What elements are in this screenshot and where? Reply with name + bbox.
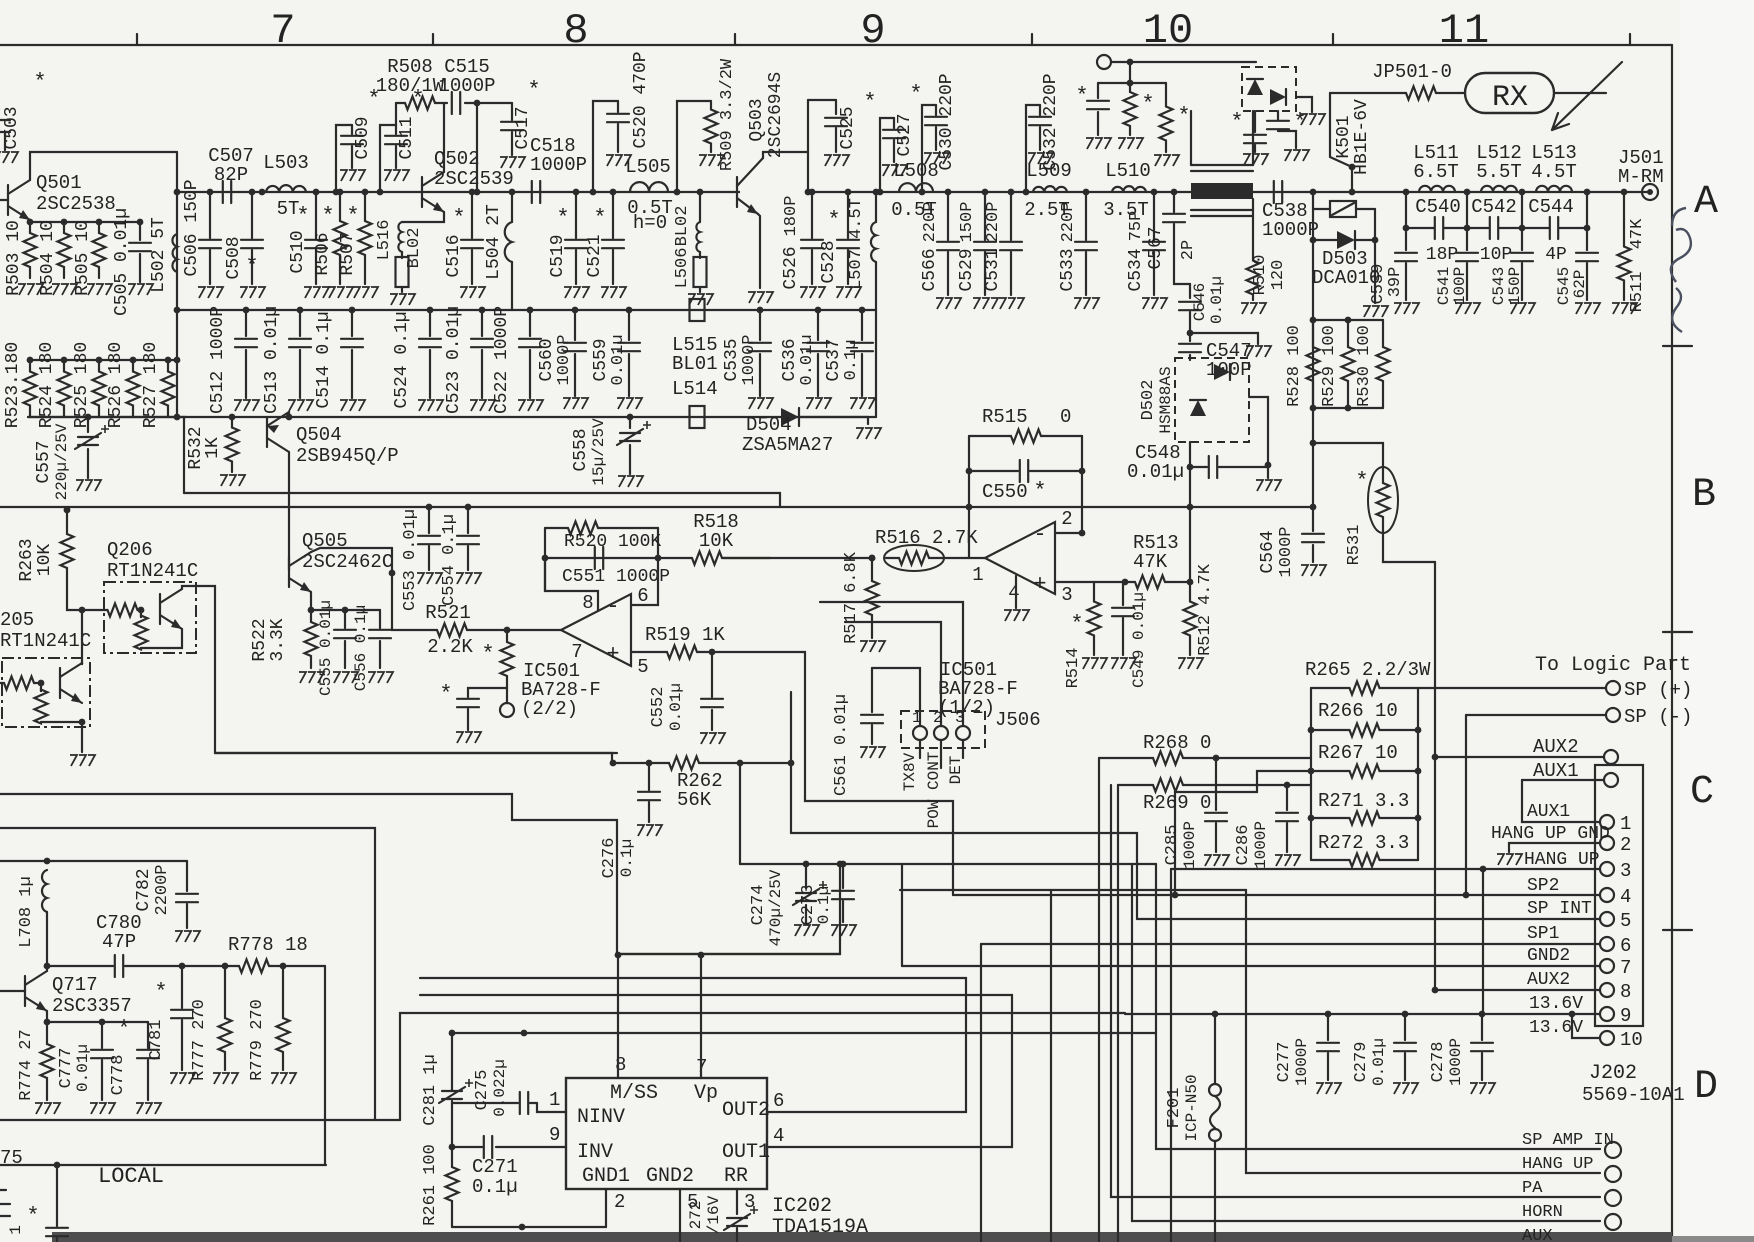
svg-text:0: 0 (1060, 406, 1071, 428)
svg-text:1K: 1K (203, 437, 223, 459)
wire opamp1 pin2 (1056, 532, 1082, 534)
svg-text:C526: C526 (781, 246, 801, 289)
capacitor C543 150P (1521, 228, 1523, 250)
svg-text:R267 10: R267 10 (1318, 742, 1398, 764)
wire IC202 pin8 (617, 955, 619, 1078)
wire pin8 line (1435, 989, 1600, 991)
wire R531 branch (1310, 440, 1317, 447)
wire SP INT feed (791, 833, 1137, 919)
svg-text:Q206: Q206 (107, 539, 153, 561)
capacitor C531 220P (1008, 189, 1015, 196)
capacitor C278 1000P (1479, 1011, 1486, 1018)
svg-text:2: 2 (1620, 834, 1631, 856)
transistor Q503 (740, 188, 805, 196)
wire Q717 emitter (46, 1011, 48, 1022)
capacitor C564 1000P (1310, 504, 1317, 511)
svg-text:C505 0.01µ: C505 0.01µ (112, 208, 132, 316)
wire SP- line (1466, 714, 1606, 716)
wire bus A y493 (184, 493, 780, 507)
svg-text:L506: L506 (673, 248, 692, 289)
svg-text:0.1µ: 0.1µ (815, 886, 833, 924)
svg-text:SP AMP IN: SP AMP IN (1522, 1131, 1614, 1150)
RX stadium (1436, 92, 1465, 94)
resistor R511 47K (1621, 189, 1628, 196)
bank rails (1310, 688, 1312, 860)
capacitor C508 (249, 189, 256, 196)
svg-text:1000P: 1000P (1181, 821, 1199, 869)
svg-text:10K: 10K (699, 530, 734, 552)
svg-text:RT1N241C: RT1N241C (0, 630, 91, 652)
capacitor C510 (313, 189, 320, 196)
wire SP AMP IN (1156, 864, 1600, 1149)
svg-text:C285: C285 (1163, 825, 1182, 866)
svg-text:R779 270: R779 270 (248, 999, 267, 1081)
capacitor C532 220P (1026, 105, 1040, 192)
svg-text:6: 6 (1620, 935, 1631, 957)
svg-text:C560: C560 (537, 338, 557, 381)
svg-text:SP (+): SP (+) (1624, 679, 1692, 701)
svg-text:6.5T: 6.5T (1413, 161, 1459, 183)
svg-text:ICP-N50: ICP-N50 (1183, 1074, 1201, 1141)
svg-text:1: 1 (912, 709, 922, 727)
capacitor C546 0.01u (1189, 284, 1191, 298)
terminal J202 pin 9 (1600, 1007, 1614, 1021)
resistor R521 2.2K (437, 624, 467, 637)
svg-text:R522: R522 (250, 618, 270, 661)
capacitor bottom-left star (46, 1228, 68, 1236)
svg-text:+: + (1033, 572, 1046, 597)
svg-text:*: * (321, 204, 334, 229)
ferrite bead L515 BL01 (690, 299, 705, 321)
svg-text:3: 3 (955, 709, 965, 727)
svg-text:3: 3 (1620, 860, 1631, 882)
svg-text:AUX2: AUX2 (1533, 736, 1579, 758)
wire Q502 collector (443, 103, 445, 172)
wire output pin6 (631, 558, 658, 605)
diode D502b (1190, 400, 1206, 416)
capacitor C555 0.01u (311, 609, 345, 611)
svg-text:L510: L510 (1105, 160, 1151, 182)
resistor R532 1K (229, 414, 236, 421)
wire pin6 line (980, 944, 982, 1242)
svg-text:2P: 2P (1179, 240, 1198, 260)
svg-text:4.5T: 4.5T (1531, 161, 1577, 183)
capacitor C272 elco (724, 1214, 750, 1230)
svg-text:SP INT: SP INT (1527, 899, 1592, 919)
svg-text:0.01µ: 0.01µ (798, 334, 817, 385)
svg-text:D: D (1694, 1065, 1718, 1110)
svg-text:C523 0.01µ: C523 0.01µ (444, 306, 464, 414)
svg-text:5.5T: 5.5T (1476, 161, 1522, 183)
page top ruler line (0, 44, 1672, 46)
svg-text:+: + (606, 642, 619, 667)
svg-text:R511: R511 (1628, 272, 1647, 313)
svg-text:C512 1000P: C512 1000P (208, 306, 228, 414)
svg-text:*: * (245, 254, 258, 279)
relay switch arm K501 (1329, 93, 1331, 157)
svg-text:82P: 82P (214, 164, 248, 186)
inductor L505 0.5T (630, 182, 668, 192)
svg-text:C527: C527 (895, 113, 915, 156)
inductor L502 5T (172, 234, 177, 272)
svg-text:R526 180: R526 180 (106, 342, 126, 428)
capacitor star left (1097, 83, 1099, 98)
inductor L513 4.5T (1519, 189, 1526, 196)
svg-text:C537: C537 (824, 338, 844, 381)
svg-text:RR: RR (724, 1165, 748, 1188)
capacitor C551 1000P (595, 547, 603, 569)
svg-text:C535: C535 (722, 338, 742, 381)
terminal SP AMP IN (1605, 1142, 1621, 1158)
svg-text:R269 0: R269 0 (1143, 792, 1211, 814)
svg-text:1: 1 (1620, 813, 1631, 835)
svg-text:BL02: BL02 (673, 206, 692, 247)
arrow to L513 (1552, 62, 1622, 130)
wire Q503 emitter to ground (758, 214, 760, 288)
svg-text:HANG UP: HANG UP (1522, 1155, 1593, 1174)
svg-text:M/SS: M/SS (610, 1082, 658, 1105)
wire pin3 line (1171, 868, 1600, 870)
svg-text:120: 120 (1269, 260, 1288, 291)
resistor R514b star (501, 630, 514, 688)
diode box D-pair dashed (1242, 67, 1296, 111)
resistor R509 3.3/2W (677, 101, 711, 192)
svg-text:1000P: 1000P (530, 154, 587, 176)
svg-text:SP1: SP1 (1527, 924, 1559, 944)
svg-text:INV: INV (577, 1141, 613, 1164)
svg-text:R777 270: R777 270 (190, 999, 209, 1081)
svg-text:*: * (26, 1204, 39, 1229)
wire Q501 emitter (30, 220, 140, 222)
svg-text:C546: C546 (1191, 283, 1209, 321)
svg-text:HB1E-6V: HB1E-6V (1352, 99, 1372, 175)
inductor L507 4.5T (873, 189, 880, 196)
wire supply rail (28, 416, 876, 418)
capacitor C507 82P (223, 181, 231, 203)
capacitor star mid (468, 688, 507, 697)
wire C780 right (125, 965, 239, 967)
capacitor C525 (808, 99, 836, 101)
svg-text:*: * (527, 78, 540, 103)
svg-text:62P: 62P (1571, 270, 1589, 299)
capacitor C514 0.1u (349, 307, 356, 314)
svg-text:C: C (1690, 770, 1714, 815)
wire Q504 collector (288, 452, 290, 570)
wire IC202 pin7 (700, 955, 702, 1078)
svg-text:C275: C275 (473, 1070, 492, 1111)
terminal J202 pin 8 (1600, 983, 1614, 997)
svg-text:2: 2 (1061, 508, 1072, 530)
capacitor C539 39P (1405, 228, 1407, 250)
capacitor C286 1000P (1286, 785, 1288, 810)
wire IC202 pin1 NINV (537, 1103, 566, 1112)
capacitor C553 0.01u (426, 504, 433, 511)
capacitor C781 star (181, 966, 183, 1008)
svg-text:C274: C274 (749, 885, 768, 926)
svg-text:15µ/25V: 15µ/25V (590, 418, 608, 486)
svg-text:DET: DET (947, 756, 965, 785)
wire vertical x740 (739, 763, 741, 864)
svg-text:8: 8 (1620, 981, 1631, 1003)
wire K501 coil sides (1190, 111, 1192, 165)
wire Q206 out to LOCAL-ish (215, 752, 617, 754)
wire PA (1111, 785, 1600, 1197)
svg-text:*: * (827, 208, 840, 233)
svg-text:9: 9 (1620, 1005, 1631, 1027)
wire HANG UP bottom (900, 890, 1600, 1173)
resistor R508 180/1W (396, 102, 404, 104)
IC202 TDA1519A box (566, 1078, 767, 1189)
svg-text:C530 220P: C530 220P (937, 73, 957, 170)
svg-text:C553 0.01µ: C553 0.01µ (401, 509, 420, 611)
svg-text:2SC2694S: 2SC2694S (766, 72, 786, 158)
svg-text:NINV: NINV (577, 1106, 625, 1129)
wire feedback right rail (1081, 436, 1083, 533)
svg-text:205: 205 (0, 609, 34, 631)
svg-text:Q717: Q717 (52, 974, 98, 996)
border tick C/D (1663, 929, 1692, 931)
svg-text:13.6V: 13.6V (1529, 1018, 1583, 1038)
svg-text:HORN: HORN (1522, 1203, 1563, 1222)
wire C274 rail (740, 863, 1156, 865)
wire R262 line (612, 762, 649, 764)
terminal SP(-) (1606, 708, 1620, 722)
capacitor C567 2P (1171, 189, 1178, 196)
wire stair from Q206 region (0, 794, 840, 954)
svg-text:R527 180: R527 180 (141, 342, 161, 428)
inductor L510 3.5T (1112, 186, 1146, 192)
svg-text:R510: R510 (1251, 255, 1270, 296)
svg-text:180P: 180P (782, 196, 801, 237)
capacitor C554 0.1u (465, 504, 472, 511)
capacitor C271 0.1u (484, 1136, 492, 1158)
wire maze vertical x1099 (1098, 758, 1100, 1242)
capacitor C519 (573, 189, 580, 196)
svg-text:8: 8 (615, 1054, 626, 1076)
svg-text:220P: 220P (984, 202, 1003, 243)
resistor R503 10 (27, 219, 34, 226)
svg-text:*: * (117, 1017, 130, 1042)
capacitor C517 (511, 103, 513, 120)
resistor R522 3.3K (305, 610, 318, 668)
wire Q717 emitter node (47, 1021, 148, 1023)
svg-text:1: 1 (7, 1225, 25, 1235)
capacitor C535 1000P (757, 307, 764, 314)
capacitor C550 star (969, 470, 1018, 472)
inductor L506 BL02 (697, 189, 704, 196)
transistor Q205 (59, 668, 61, 698)
wire bus node to C506 (207, 189, 214, 196)
resistor R506 (337, 189, 344, 196)
svg-text:56K: 56K (677, 789, 712, 811)
svg-text:SP (-): SP (-) (1624, 706, 1692, 728)
svg-text:POW CONT: POW CONT (925, 752, 943, 829)
resistor R777 270 (224, 966, 226, 1000)
capacitor C274 470u/25V (803, 861, 810, 868)
svg-text:*: * (154, 980, 167, 1005)
wire Q205 joins (81, 663, 83, 664)
svg-text:2SC2538: 2SC2538 (36, 193, 116, 215)
svg-text:R509 3.3/2W: R509 3.3/2W (718, 58, 737, 171)
resistor JP501-0 (1330, 92, 1406, 94)
capacitor C547 100P (1189, 333, 1191, 341)
svg-text:10P: 10P (1480, 245, 1512, 265)
svg-text:-: - (1033, 522, 1046, 547)
svg-text:180/1W: 180/1W (376, 75, 445, 97)
capacitor C520 470P (593, 101, 618, 192)
capacitor C512 1000P (243, 307, 250, 314)
wire bottom left partials (0, 1190, 10, 1216)
capacitor C777 0.01u (99, 1019, 106, 1026)
wire Q503 collector to bus (807, 100, 809, 192)
svg-text:7: 7 (1620, 957, 1631, 979)
svg-text:39P: 39P (1386, 267, 1405, 298)
diode D504 ZSA5MA27 (781, 408, 799, 426)
svg-text:0.022µ: 0.022µ (491, 1059, 509, 1117)
wire SP- vertical (1465, 715, 1467, 895)
op-amp IC501 1/2 (985, 522, 1055, 594)
svg-text:C522 1000P: C522 1000P (492, 306, 512, 414)
transistor Q505 2SC2462C (288, 557, 290, 587)
capacitor C552 0.01u (711, 652, 713, 697)
wire J506 TX8V line (872, 668, 920, 726)
wire box to ground (1296, 97, 1312, 112)
svg-text:0.1µ: 0.1µ (842, 340, 861, 381)
svg-text:C540: C540 (1415, 196, 1461, 218)
svg-text:R505 10: R505 10 (73, 220, 93, 296)
capacitor C529 150P (982, 189, 989, 196)
resistor R520 100K (544, 528, 546, 591)
wire Q205 collector (81, 610, 83, 664)
resistor R514 star (1088, 582, 1101, 655)
wire rail left drop (176, 310, 178, 360)
svg-text:C519: C519 (548, 234, 568, 277)
resistor R262 56K (664, 757, 704, 770)
capacitor C557 220u/25V (85, 414, 92, 421)
svg-text:AUX2: AUX2 (1527, 970, 1570, 990)
svg-text:L509: L509 (1026, 160, 1072, 182)
terminal HORN (1605, 1214, 1621, 1230)
capacitor C778 star (147, 1022, 149, 1048)
wire AUX2 top line (1435, 756, 1604, 758)
svg-text:R506: R506 (313, 232, 333, 275)
wire pin2 to gnd (1509, 843, 1600, 852)
resistor R525 (96, 357, 103, 364)
capacitor C276 0.1u (648, 763, 650, 790)
optocoupler Q205 RT1N241C box (2, 658, 90, 727)
svg-text:5569-10A1: 5569-10A1 (1582, 1084, 1685, 1106)
resistor R527 (165, 357, 172, 364)
svg-text:C513 0.01µ: C513 0.01µ (262, 306, 282, 414)
capacitor C516 (469, 189, 476, 196)
wire R512 up to D502 (1189, 442, 1191, 582)
wire vertical x791 (790, 692, 792, 833)
resistor bank R528 R529 R530 (1312, 320, 1314, 507)
wire IC202 pin9 INV (496, 1146, 566, 1148)
diode in box up (1247, 79, 1263, 95)
wire pin9 line 13.6V rail (1125, 1013, 1600, 1015)
inductor L504 2T (509, 189, 516, 196)
wire R516 to opamp1 (942, 557, 985, 559)
svg-text:*: * (1075, 84, 1088, 109)
svg-text:2SC3357: 2SC3357 (52, 995, 132, 1017)
wire D502 right (1249, 397, 1268, 465)
wire Q504 emitter (288, 412, 290, 417)
svg-text:*: * (1293, 110, 1306, 135)
svg-text:F201: F201 (1165, 1088, 1184, 1129)
wire HORN (1132, 864, 1600, 1221)
diode D502a (1214, 364, 1230, 380)
resistor R504 10 (61, 219, 68, 226)
connector J202 box (1595, 765, 1643, 1026)
svg-text:0.1µ: 0.1µ (618, 839, 636, 877)
svg-text:R266 10: R266 10 (1318, 700, 1398, 722)
capacitor C285 1000P (1215, 758, 1217, 810)
svg-text:4: 4 (1620, 886, 1631, 908)
ferrite bead L514 BL01 (690, 406, 705, 428)
resistor R517 6.8K (869, 555, 876, 562)
resistor R524 (61, 357, 68, 364)
resistor Q205 base (40, 683, 42, 691)
wire AUX1 drop to pin1 (1522, 780, 1600, 822)
svg-text:1000P: 1000P (1293, 1038, 1311, 1086)
border tick A/B (1663, 345, 1692, 347)
svg-text:2: 2 (614, 1191, 625, 1213)
svg-text:PA: PA (1522, 1179, 1543, 1198)
capacitor C513 0.01u (297, 307, 304, 314)
svg-text:4P: 4P (1545, 245, 1567, 265)
wire R778 to LOCAL (324, 966, 326, 1165)
svg-text:R507: R507 (338, 232, 358, 275)
resistor R779 270 (282, 966, 284, 1000)
svg-text:R520 100K: R520 100K (564, 532, 661, 552)
resistor R515 0 (969, 435, 1009, 437)
svg-text:IC202: IC202 (772, 1195, 832, 1218)
svg-text:4: 4 (1008, 582, 1019, 604)
svg-text:150P: 150P (958, 202, 977, 243)
resistor R512 4.7K (1184, 582, 1197, 655)
terminal J202 pin 1 (1600, 815, 1614, 829)
svg-text:*: * (1177, 104, 1190, 129)
wire relay feed (1111, 61, 1256, 63)
svg-text:6: 6 (637, 585, 648, 607)
svg-text:R261 100: R261 100 (421, 1144, 440, 1226)
resistor R263 10K (64, 507, 71, 514)
svg-text:7: 7 (270, 7, 295, 55)
svg-text:9: 9 (549, 1124, 560, 1146)
feedback loop R515/C550 (968, 436, 970, 558)
wire pin7 line (902, 965, 1600, 967)
capacitor C556 0.1u (345, 609, 380, 611)
svg-text:HANG UP: HANG UP (1524, 850, 1600, 870)
capacitor C540 18P (1405, 192, 1407, 228)
svg-text:C549 0.01µ: C549 0.01µ (1130, 592, 1148, 688)
svg-text:To Logic Part: To Logic Part (1535, 654, 1691, 677)
svg-text:4: 4 (773, 1125, 784, 1147)
svg-text:R528 100: R528 100 (1285, 325, 1304, 407)
svg-text:1000P: 1000P (1252, 821, 1270, 869)
capacitor C541 100P (1466, 228, 1468, 250)
svg-text:2200P: 2200P (153, 864, 172, 915)
resistor Q206 base (135, 616, 148, 650)
svg-text:C532 220P: C532 220P (1041, 73, 1061, 170)
terminal J202 pin 10 (1600, 1031, 1614, 1045)
capacitor C780 47P (115, 955, 123, 977)
svg-text:0.01µ: 0.01µ (667, 683, 685, 731)
svg-text:1000P: 1000P (438, 75, 495, 97)
svg-text:3: 3 (1061, 584, 1072, 606)
svg-text:C554 0.1µ: C554 0.1µ (440, 514, 459, 606)
